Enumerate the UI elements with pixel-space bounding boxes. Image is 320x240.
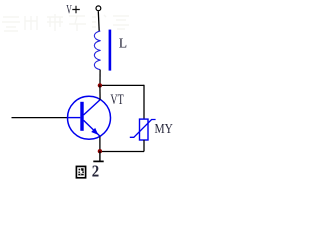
wire terminal to inductor (97, 11, 100, 31)
transistor VT collector lead (84, 100, 101, 115)
wire bottom horizontal to emitter node (100, 151, 144, 153)
wire collector to node (99, 85, 101, 99)
node collector junction (98, 83, 102, 87)
inductor L coil (94, 31, 100, 70)
svg-text:L: L (119, 37, 127, 52)
wire varistor bottom (143, 140, 145, 152)
transistor VT emitter lead (84, 120, 101, 136)
label V+ plus sign (72, 6, 80, 14)
svg-text:VT: VT (110, 92, 123, 108)
wire coil bottom to collector node (99, 70, 101, 86)
caption glyph tu (图) hand-drawn (76, 166, 85, 177)
transistor VT emitter arrow (91, 128, 98, 135)
transistor VT base bar (80, 102, 83, 131)
varistor MY diagonal stroke (130, 120, 156, 138)
ground (93, 151, 103, 161)
terminal V+ (96, 6, 101, 11)
wire MY branch vertical (143, 85, 145, 119)
wire emitter to node (99, 137, 101, 152)
transistor VT circle (68, 96, 111, 139)
svg-text:2: 2 (92, 162, 99, 179)
transistor VT (67, 96, 110, 139)
transistor VT base lead (67, 117, 80, 119)
wire base input (12, 117, 68, 119)
varistor MY body (140, 119, 149, 140)
svg-text:MY: MY (155, 122, 173, 137)
node emitter junction (98, 149, 102, 153)
svg-text:V: V (66, 2, 72, 17)
wire collector node to MY branch (100, 84, 144, 86)
inductor L core bar (109, 30, 112, 71)
